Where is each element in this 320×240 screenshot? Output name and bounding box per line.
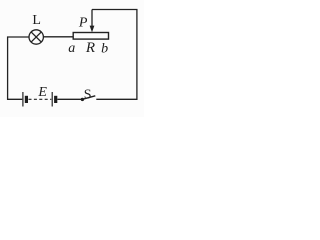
svg-text:S: S [84,87,92,102]
svg-text:L: L [32,13,41,28]
svg-text:a: a [68,41,75,56]
svg-text:E: E [37,85,47,100]
svg-text:P: P [78,16,88,31]
svg-text:b: b [101,41,108,56]
svg-text:R: R [85,40,95,56]
